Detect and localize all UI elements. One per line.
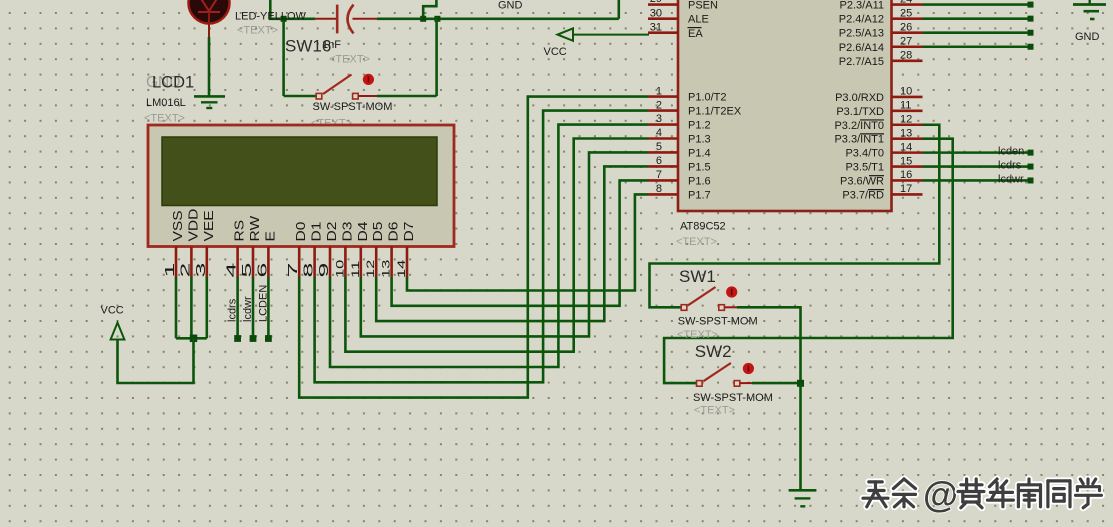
svg-text:25: 25 — [900, 7, 912, 19]
svg-text:26: 26 — [900, 21, 912, 33]
svg-text:24: 24 — [900, 0, 912, 5]
svg-text:<TEXT>: <TEXT> — [694, 405, 735, 417]
wire SW16 right to net B — [377, 95, 437, 98]
svg-text:P3.2/INT0: P3.2/INT0 — [834, 120, 884, 132]
svg-text:17: 17 — [900, 183, 912, 195]
svg-text:2: 2 — [656, 99, 662, 111]
switch SW1 (SW-SPST-MOM) — [681, 286, 737, 310]
LCD pin 14 stub — [406, 247, 409, 278]
svg-text:P3.1/TXD: P3.1/TXD — [836, 106, 884, 118]
LCD pin 8 stub — [313, 247, 316, 278]
pin 3 P1.2 — [648, 123, 678, 126]
IC U1 AT89C52 body — [678, 0, 892, 211]
pin 12 P3.2/INT0 — [892, 123, 923, 126]
svg-text:1: 1 — [656, 85, 662, 97]
svg-text:GND: GND — [1075, 31, 1100, 43]
pin 27 P2.6/A14 — [892, 45, 923, 48]
wire VDD down — [190, 277, 193, 338]
node junction A — [420, 16, 426, 22]
svg-text:D2: D2 — [325, 222, 339, 242]
wire down to SW16 left — [282, 19, 285, 96]
svg-text:P1.3: P1.3 — [688, 134, 711, 146]
LCD pin 1 stub — [175, 247, 178, 278]
svg-text:13: 13 — [900, 127, 912, 139]
wire P2.6 to terminal — [923, 45, 1029, 48]
wire D5 to P1.5 — [376, 166, 648, 321]
wire P3.4 to terminal lcden — [923, 151, 1029, 154]
svg-text:12: 12 — [364, 259, 377, 278]
svg-text:6: 6 — [255, 263, 269, 278]
svg-text:P3.0/RXD: P3.0/RXD — [835, 92, 884, 104]
wire P3.3/INT1 to SW2 — [664, 139, 953, 383]
wire up to top edge (GND net) — [617, 0, 620, 19]
svg-text:D0: D0 — [294, 222, 308, 242]
wire LED cathode to ground — [208, 37, 211, 96]
svg-text:13: 13 — [379, 259, 392, 278]
wire from top into LED/cap net — [270, 0, 315, 19]
svg-text:VEE: VEE — [202, 210, 216, 241]
svg-text:P3.6/WR: P3.6/WR — [840, 175, 884, 187]
wire to VCC arrow — [118, 338, 194, 383]
svg-text:D6: D6 — [387, 222, 401, 242]
svg-text:lcdrs: lcdrs — [227, 298, 239, 322]
wire down to SW16 right — [435, 19, 438, 96]
switch SW16 (SW-SPST-MOM) — [316, 74, 377, 99]
svg-text:P2.7/A15: P2.7/A15 — [839, 56, 884, 68]
svg-text:P3.4/T0: P3.4/T0 — [845, 148, 884, 160]
LCD pin 7 stub — [298, 247, 301, 278]
svg-text:P2.5/A13: P2.5/A13 — [839, 28, 884, 40]
svg-text:SW-SPST-MOM: SW-SPST-MOM — [678, 316, 758, 328]
svg-text:7: 7 — [286, 263, 300, 278]
wire SW2 right to gnd net — [752, 382, 801, 385]
svg-text:5: 5 — [240, 263, 254, 278]
LCD pin 13 stub — [390, 247, 393, 278]
wire VEE down — [206, 277, 209, 338]
svg-text:SW-SPST-MOM: SW-SPST-MOM — [313, 101, 393, 113]
svg-text:<TEXT>: <TEXT> — [676, 236, 717, 248]
svg-text:12: 12 — [900, 113, 912, 125]
wire SW1 right to gnd net — [737, 307, 801, 383]
power terminal VCC (LCD) — [111, 323, 125, 340]
pin 28 P2.7/A15 — [892, 59, 923, 62]
LCD screen — [162, 137, 437, 206]
svg-text:P2.3/A11: P2.3/A11 — [840, 0, 884, 12]
svg-text:27: 27 — [900, 35, 912, 47]
LCD LCD1 LM016L body — [148, 125, 454, 247]
svg-text:VCC: VCC — [101, 304, 124, 316]
svg-text:RW: RW — [248, 215, 262, 241]
wire P2.5 to terminal — [923, 31, 1029, 34]
wire D7 to P1.7 — [407, 194, 648, 290]
svg-text:P1.0/T2: P1.0/T2 — [688, 92, 727, 104]
LCD pin 6 stub — [267, 247, 270, 278]
svg-text:3: 3 — [194, 263, 208, 278]
pin 24 P2.3/A11 — [892, 3, 923, 6]
svg-text:AT89C52: AT89C52 — [680, 221, 726, 233]
wire lcdwr — [252, 277, 255, 337]
svg-text:9: 9 — [317, 263, 331, 278]
svg-text:P1.2: P1.2 — [688, 120, 711, 132]
wire LCDEN — [267, 277, 270, 337]
svg-text:E: E — [264, 231, 278, 241]
svg-text:SW-SPST-MOM: SW-SPST-MOM — [693, 392, 773, 404]
pin 5 P1.4 — [648, 151, 678, 154]
pin 11 P3.1/TXD — [892, 110, 923, 113]
LED D1 (LED-YELLOW) — [189, 0, 230, 37]
switch SW2 (SW-SPST-MOM) — [697, 363, 755, 386]
pin 2 P1.1/T2EX — [648, 109, 678, 112]
pin 30 ALE — [648, 17, 678, 20]
svg-text:14: 14 — [395, 259, 408, 278]
svg-text:P1.7: P1.7 — [688, 189, 711, 201]
node junction at cap net branch — [281, 16, 287, 22]
svg-text:2: 2 — [178, 263, 192, 278]
svg-text:P1.6: P1.6 — [688, 175, 711, 187]
power terminal VCC (EA pin) — [558, 28, 650, 40]
svg-text:16: 16 — [900, 169, 912, 181]
wire down to ground — [799, 383, 802, 489]
wire P3.5 to terminal lcdrs — [923, 165, 1029, 168]
svg-text:EA: EA — [688, 28, 703, 40]
wire P3.6 to terminal lcdwr — [923, 179, 1029, 182]
svg-text:6: 6 — [656, 155, 662, 167]
wire jog up to top edge — [423, 0, 436, 19]
svg-text:D3: D3 — [341, 222, 355, 242]
pin 4 P1.3 — [648, 137, 678, 140]
svg-text:1: 1 — [163, 263, 177, 278]
svg-text:lcden: lcden — [998, 146, 1024, 158]
ground (top right) — [1073, 0, 1106, 19]
pin 1 P1.0/T2 — [648, 95, 678, 98]
svg-text:SW1: SW1 — [679, 267, 716, 286]
wire P2.3 to terminal — [923, 3, 1029, 6]
pin 16 P3.6/WR — [892, 179, 923, 182]
node junction SW1/SW2 — [797, 380, 804, 387]
svg-text:14: 14 — [900, 141, 912, 153]
svg-text:D5: D5 — [371, 222, 385, 242]
svg-text:P1.4: P1.4 — [688, 147, 711, 159]
wire D2 to P1.2 — [330, 125, 648, 367]
svg-text:D1: D1 — [310, 222, 324, 242]
wire cap to junctions — [377, 17, 619, 20]
svg-text:D4: D4 — [356, 222, 370, 242]
pin 15 P3.5/T1 — [892, 165, 923, 168]
LCD pin 4 stub — [236, 247, 239, 278]
svg-text:28: 28 — [900, 50, 912, 62]
wire P2.4 to terminal — [923, 17, 1029, 20]
svg-text:P3.3/INT1: P3.3/INT1 — [834, 134, 884, 146]
svg-text:4: 4 — [224, 262, 238, 277]
svg-text:<TEXT>: <TEXT> — [677, 329, 718, 341]
svg-text:10: 10 — [333, 259, 346, 278]
LCD pin 10 stub — [344, 247, 347, 278]
wire D1 to P1.1 — [315, 111, 648, 383]
wire D4 to P1.4 — [361, 152, 648, 336]
svg-text:10: 10 — [900, 86, 912, 98]
LCD pin 2 stub — [190, 247, 193, 278]
svg-text:VCC: VCC — [544, 46, 567, 58]
wire to SW16 left terminal — [284, 95, 317, 98]
watermark (Toutiao @huanghuanan) hand-drawn CJK strokes — [863, 474, 1101, 515]
svg-text:31: 31 — [650, 21, 662, 33]
svg-text:D7: D7 — [402, 222, 416, 242]
svg-text:15: 15 — [900, 155, 912, 167]
wire VSS down — [175, 277, 178, 338]
svg-text:lcdwr: lcdwr — [998, 173, 1024, 185]
svg-text:ALE: ALE — [688, 14, 709, 26]
ground (under LED) — [194, 96, 225, 108]
svg-text:RS: RS — [233, 220, 247, 242]
svg-text:SW16: SW16 — [285, 37, 331, 56]
svg-text:<TEXT>: <TEXT> — [144, 113, 185, 125]
wire P3.2/INT0 to SW1 — [650, 125, 940, 308]
svg-text:11: 11 — [349, 261, 362, 278]
svg-text:lcdwr: lcdwr — [242, 296, 254, 322]
svg-text:7: 7 — [656, 169, 662, 181]
wire joining pins 1-3 — [176, 337, 207, 340]
svg-text:P3.5/T1: P3.5/T1 — [845, 162, 884, 174]
pin 6 P1.5 — [648, 165, 678, 168]
svg-text:LED-YELLOW: LED-YELLOW — [235, 11, 307, 23]
pin 31 EA (overline) — [648, 31, 678, 34]
svg-text:LCD1: LCD1 — [152, 74, 194, 92]
svg-text:29: 29 — [650, 0, 662, 5]
svg-text:@: @ — [923, 474, 958, 515]
LCD pin 12 stub — [375, 247, 378, 278]
ground (bottom) — [789, 490, 817, 506]
svg-text:<TEXT>: <TEXT> — [329, 54, 370, 66]
wire D6 to P1.6 — [392, 180, 648, 305]
wire D0 to P1.0 — [299, 97, 648, 398]
svg-text:<TEXT>: <TEXT> — [237, 25, 278, 37]
LCD pin 3 stub — [206, 247, 209, 278]
svg-text:VSS: VSS — [171, 210, 185, 241]
capacitor C1 value 1nF — [315, 5, 377, 34]
svg-text:LCDEN: LCDEN — [257, 285, 269, 322]
svg-text:P2.4/A12: P2.4/A12 — [839, 14, 884, 26]
svg-text:P2.6/A14: P2.6/A14 — [839, 42, 884, 54]
pin 17 P3.7/RD — [892, 193, 923, 196]
svg-text:lcdrs: lcdrs — [998, 160, 1022, 172]
LCD pin 11 stub — [359, 247, 362, 278]
svg-text:VDD: VDD — [187, 209, 201, 242]
pin 26 P2.5/A13 — [892, 31, 923, 34]
node junction VDD — [190, 335, 198, 343]
svg-text:P1.1/T2EX: P1.1/T2EX — [688, 106, 742, 118]
LCD pin 5 stub — [252, 247, 255, 278]
svg-text:SW2: SW2 — [695, 342, 732, 361]
svg-text:3: 3 — [656, 113, 662, 125]
svg-text:LM016L: LM016L — [146, 97, 186, 109]
svg-text:4: 4 — [656, 127, 662, 139]
pin 7 P1.6 — [648, 179, 678, 182]
LCD pin 9 stub — [329, 247, 332, 278]
pin 8 P1.7 — [648, 193, 678, 196]
pin 29 PSEN — [648, 3, 678, 6]
wire D3 to P1.3 — [345, 139, 648, 352]
svg-text:P3.7/RD: P3.7/RD — [842, 189, 884, 201]
node junction B — [434, 16, 440, 22]
svg-text:PSEN: PSEN — [688, 0, 718, 12]
pin 14 P3.4/T0 — [892, 151, 923, 154]
svg-text:P1.5: P1.5 — [688, 161, 711, 173]
svg-text:5: 5 — [656, 141, 662, 153]
pin 10 P3.0/RXD — [892, 96, 923, 99]
svg-text:30: 30 — [650, 7, 662, 19]
svg-text:GND: GND — [498, 0, 523, 12]
wire lcdrs — [236, 277, 239, 337]
svg-text:8: 8 — [301, 263, 315, 278]
pin 13 P3.3/INT1 — [892, 137, 923, 140]
svg-text:11: 11 — [900, 100, 911, 112]
pin 25 P2.4/A12 — [892, 17, 923, 20]
svg-text:8: 8 — [656, 183, 662, 195]
